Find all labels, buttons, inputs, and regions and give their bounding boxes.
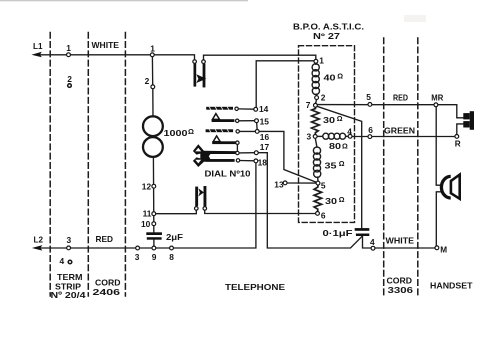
hook upper left pivot [193, 60, 197, 64]
wire dial bar 16 to node 16 [240, 130, 256, 132]
dial contact bar 17 [212, 141, 236, 144]
svg-text:80: 80 [329, 141, 341, 151]
dashed column line left 2 [87, 33, 89, 297]
svg-text:5: 5 [321, 180, 326, 190]
scan artifact top line [0, 0, 248, 1]
svg-text:10: 10 [141, 219, 151, 229]
arrow L2 [32, 245, 42, 251]
svg-text:Ω: Ω [342, 142, 348, 151]
wire node 7 diagonal to cap 0.1uF [317, 106, 362, 228]
svg-text:2μF: 2μF [166, 233, 183, 242]
svg-text:0·1μF: 0·1μF [323, 229, 353, 238]
svg-text:1: 1 [319, 56, 324, 66]
node 12 [152, 184, 156, 188]
node 9 [152, 246, 156, 250]
hook switch upper wedge [196, 74, 206, 83]
svg-text:Ω: Ω [339, 159, 345, 168]
node 3 bottom [136, 246, 140, 250]
svg-text:4: 4 [60, 256, 65, 266]
resistor 30 ohm upper [312, 107, 320, 134]
svg-text:1: 1 [66, 43, 71, 53]
wire MR down to transmitter [436, 107, 442, 186]
svg-text:14: 14 [259, 104, 269, 114]
svg-text:4: 4 [370, 237, 375, 247]
svg-text:8: 8 [169, 252, 174, 262]
svg-text:4: 4 [347, 126, 352, 136]
hook switch lower right bar [204, 186, 207, 206]
arrow L1 [31, 52, 41, 58]
node 15 [255, 119, 259, 123]
coil 40 ohm [312, 63, 319, 103]
svg-text:TERM: TERM [57, 272, 83, 282]
node 18 [254, 159, 258, 163]
svg-text:TELEPHONE: TELEPHONE [225, 282, 285, 292]
svg-text:5: 5 [366, 92, 371, 102]
node 2 left spare [68, 84, 72, 88]
svg-text:Ω: Ω [337, 114, 343, 123]
resistor 30 ohm lower [314, 185, 322, 212]
coil 35 ohm [313, 138, 320, 181]
node 3 left [67, 246, 71, 250]
dashed box B.P.O. A.S.T.I.C. No 27 [299, 46, 355, 223]
node 11 [152, 212, 156, 216]
node 17 [254, 151, 258, 155]
hook switch lower wedge [198, 188, 204, 196]
svg-text:1: 1 [150, 43, 155, 53]
svg-text:DIAL Nº10: DIAL Nº10 [205, 169, 251, 179]
svg-text:Ω: Ω [188, 127, 194, 136]
svg-text:17: 17 [260, 142, 270, 152]
wire box terminal 1 to dial node 14 [256, 61, 314, 108]
svg-text:40: 40 [324, 72, 336, 82]
box terminal 3 [313, 135, 317, 139]
svg-text:6: 6 [368, 125, 373, 135]
svg-text:3306: 3306 [388, 285, 414, 295]
node M [435, 246, 439, 250]
svg-text:2: 2 [67, 74, 72, 84]
node MR [434, 103, 438, 107]
wire dial bar 15 to node 15 [239, 120, 255, 122]
dashed column line left 1 [49, 33, 51, 297]
svg-text:MR: MR [431, 94, 443, 103]
box terminal 4 [348, 134, 352, 138]
transmitter microphone icon [441, 176, 450, 198]
wire dial bar 14 to node 14 [238, 108, 254, 110]
node 4 bottom [371, 246, 375, 250]
dial contact bar 15 [212, 119, 235, 122]
dial contact bar 16 [206, 129, 234, 132]
dial impulse star [193, 144, 236, 167]
svg-text:B.P.O. A.S.T.I.C.: B.P.O. A.S.T.I.C. [293, 23, 364, 32]
hook switch upper right bar [203, 64, 206, 88]
hook switch lower left bar [195, 187, 198, 207]
hook lower left pivot [195, 207, 199, 211]
box terminal 2 [315, 96, 319, 100]
svg-text:11: 11 [143, 209, 152, 219]
dashed column line left 3 [124, 33, 126, 297]
node 14 [254, 107, 258, 111]
svg-text:M: M [440, 246, 447, 255]
main left vertical wire [151, 57, 153, 85]
svg-text:9: 9 [152, 252, 157, 262]
node 2 mid [151, 85, 155, 89]
hook lower right pivot [203, 207, 207, 211]
capacitor 0.1uF [355, 228, 370, 231]
wire node 15 to 16 [256, 123, 258, 130]
node 1 mid [150, 53, 154, 57]
box terminal 6 [368, 135, 372, 139]
dial contact bar 14 [206, 107, 233, 110]
svg-text:WHITE: WHITE [386, 235, 415, 245]
svg-text:RED: RED [96, 234, 114, 244]
wire node 13 to node 5 [287, 182, 316, 184]
svg-text:CORD: CORD [387, 275, 413, 285]
coil 80 ohm [317, 133, 348, 139]
svg-text:1000: 1000 [164, 128, 188, 138]
svg-text:Ω: Ω [339, 195, 345, 204]
svg-text:18: 18 [258, 158, 268, 168]
wire hook contact to box terminal 1 [204, 55, 316, 60]
svg-text:15: 15 [260, 116, 270, 126]
dial bar end circles [235, 107, 238, 110]
wire node 11 to lower hook contact [156, 210, 197, 214]
svg-text:35: 35 [325, 160, 337, 170]
wire MR to receiver [438, 105, 463, 118]
terminal number labels [60, 43, 376, 266]
node 1 left [67, 53, 71, 57]
wire L2 bottom segment A [37, 163, 256, 248]
node 4 left spare [68, 260, 72, 264]
wire transmitter to M [436, 192, 442, 246]
dashed column line right 1 [383, 38, 385, 296]
svg-text:7: 7 [306, 100, 311, 110]
dial contact triangle 17 [213, 136, 220, 142]
receiver earpiece icon [463, 113, 469, 119]
svg-text:12: 12 [142, 182, 152, 192]
wire dial wedge contact down to impulse contact [236, 145, 238, 152]
svg-text:16: 16 [260, 132, 270, 142]
svg-text:CORD: CORD [95, 278, 121, 288]
node R [455, 135, 459, 139]
box terminal 6 lower [316, 212, 320, 216]
svg-text:Nº 20/4: Nº 20/4 [51, 290, 86, 300]
wire terminal 4 to 6 and GREEN to R [352, 136, 455, 138]
svg-text:13: 13 [274, 179, 284, 189]
box terminal 5 [368, 103, 372, 107]
svg-text:2406: 2406 [93, 287, 121, 297]
svg-text:2: 2 [321, 92, 326, 102]
box terminal 1 [314, 59, 318, 63]
svg-text:3: 3 [307, 132, 312, 142]
hook switch upper left bar [194, 63, 197, 86]
svg-text:L1: L1 [33, 41, 43, 51]
svg-text:2: 2 [145, 76, 150, 86]
box node 5 lower [316, 181, 320, 185]
svg-text:3: 3 [67, 235, 72, 245]
node 16 [255, 130, 259, 134]
node 10 [152, 222, 156, 226]
svg-text:30: 30 [323, 115, 335, 125]
svg-text:GREEN: GREEN [384, 125, 415, 135]
coil 1000 ohm [143, 116, 163, 136]
wire impulse upper to node 17 [239, 152, 254, 154]
svg-text:L2: L2 [34, 234, 44, 244]
wire L1 to node 1 to hook contact [36, 55, 195, 60]
svg-text:HANDSET: HANDSET [430, 281, 473, 291]
wire node 17 down to bottom segment B [258, 153, 362, 248]
wire node 7 to terminal 5 and RED to MR [317, 104, 434, 106]
dial contact triangle 15 [213, 114, 220, 120]
node 13 [283, 181, 287, 185]
wire terminal 6 to lower hook contact [205, 210, 316, 213]
dial impulse lower bar [206, 159, 235, 162]
svg-text:Nº 27: Nº 27 [313, 32, 341, 41]
wire impulse lower to node 18 [240, 160, 254, 162]
node circles [67, 53, 459, 264]
svg-text:3: 3 [135, 252, 140, 262]
svg-text:30: 30 [325, 196, 337, 206]
wire node 16 to node 5 [259, 131, 316, 182]
box node 7 [314, 103, 318, 107]
svg-text:R: R [455, 139, 461, 148]
wire receiver to R [457, 124, 463, 135]
hook upper right pivot [202, 60, 206, 64]
svg-text:RED: RED [393, 92, 408, 102]
svg-text:6: 6 [321, 210, 326, 220]
dial impulse upper bar [207, 151, 237, 154]
node 8 [170, 246, 174, 250]
wire cap 0.1uF to node 4 and M [363, 236, 436, 248]
svg-text:Ω: Ω [337, 72, 343, 81]
dashed column line right 2 [417, 38, 419, 296]
capacitor 2uF [146, 232, 162, 235]
svg-text:WHITE: WHITE [92, 40, 120, 50]
